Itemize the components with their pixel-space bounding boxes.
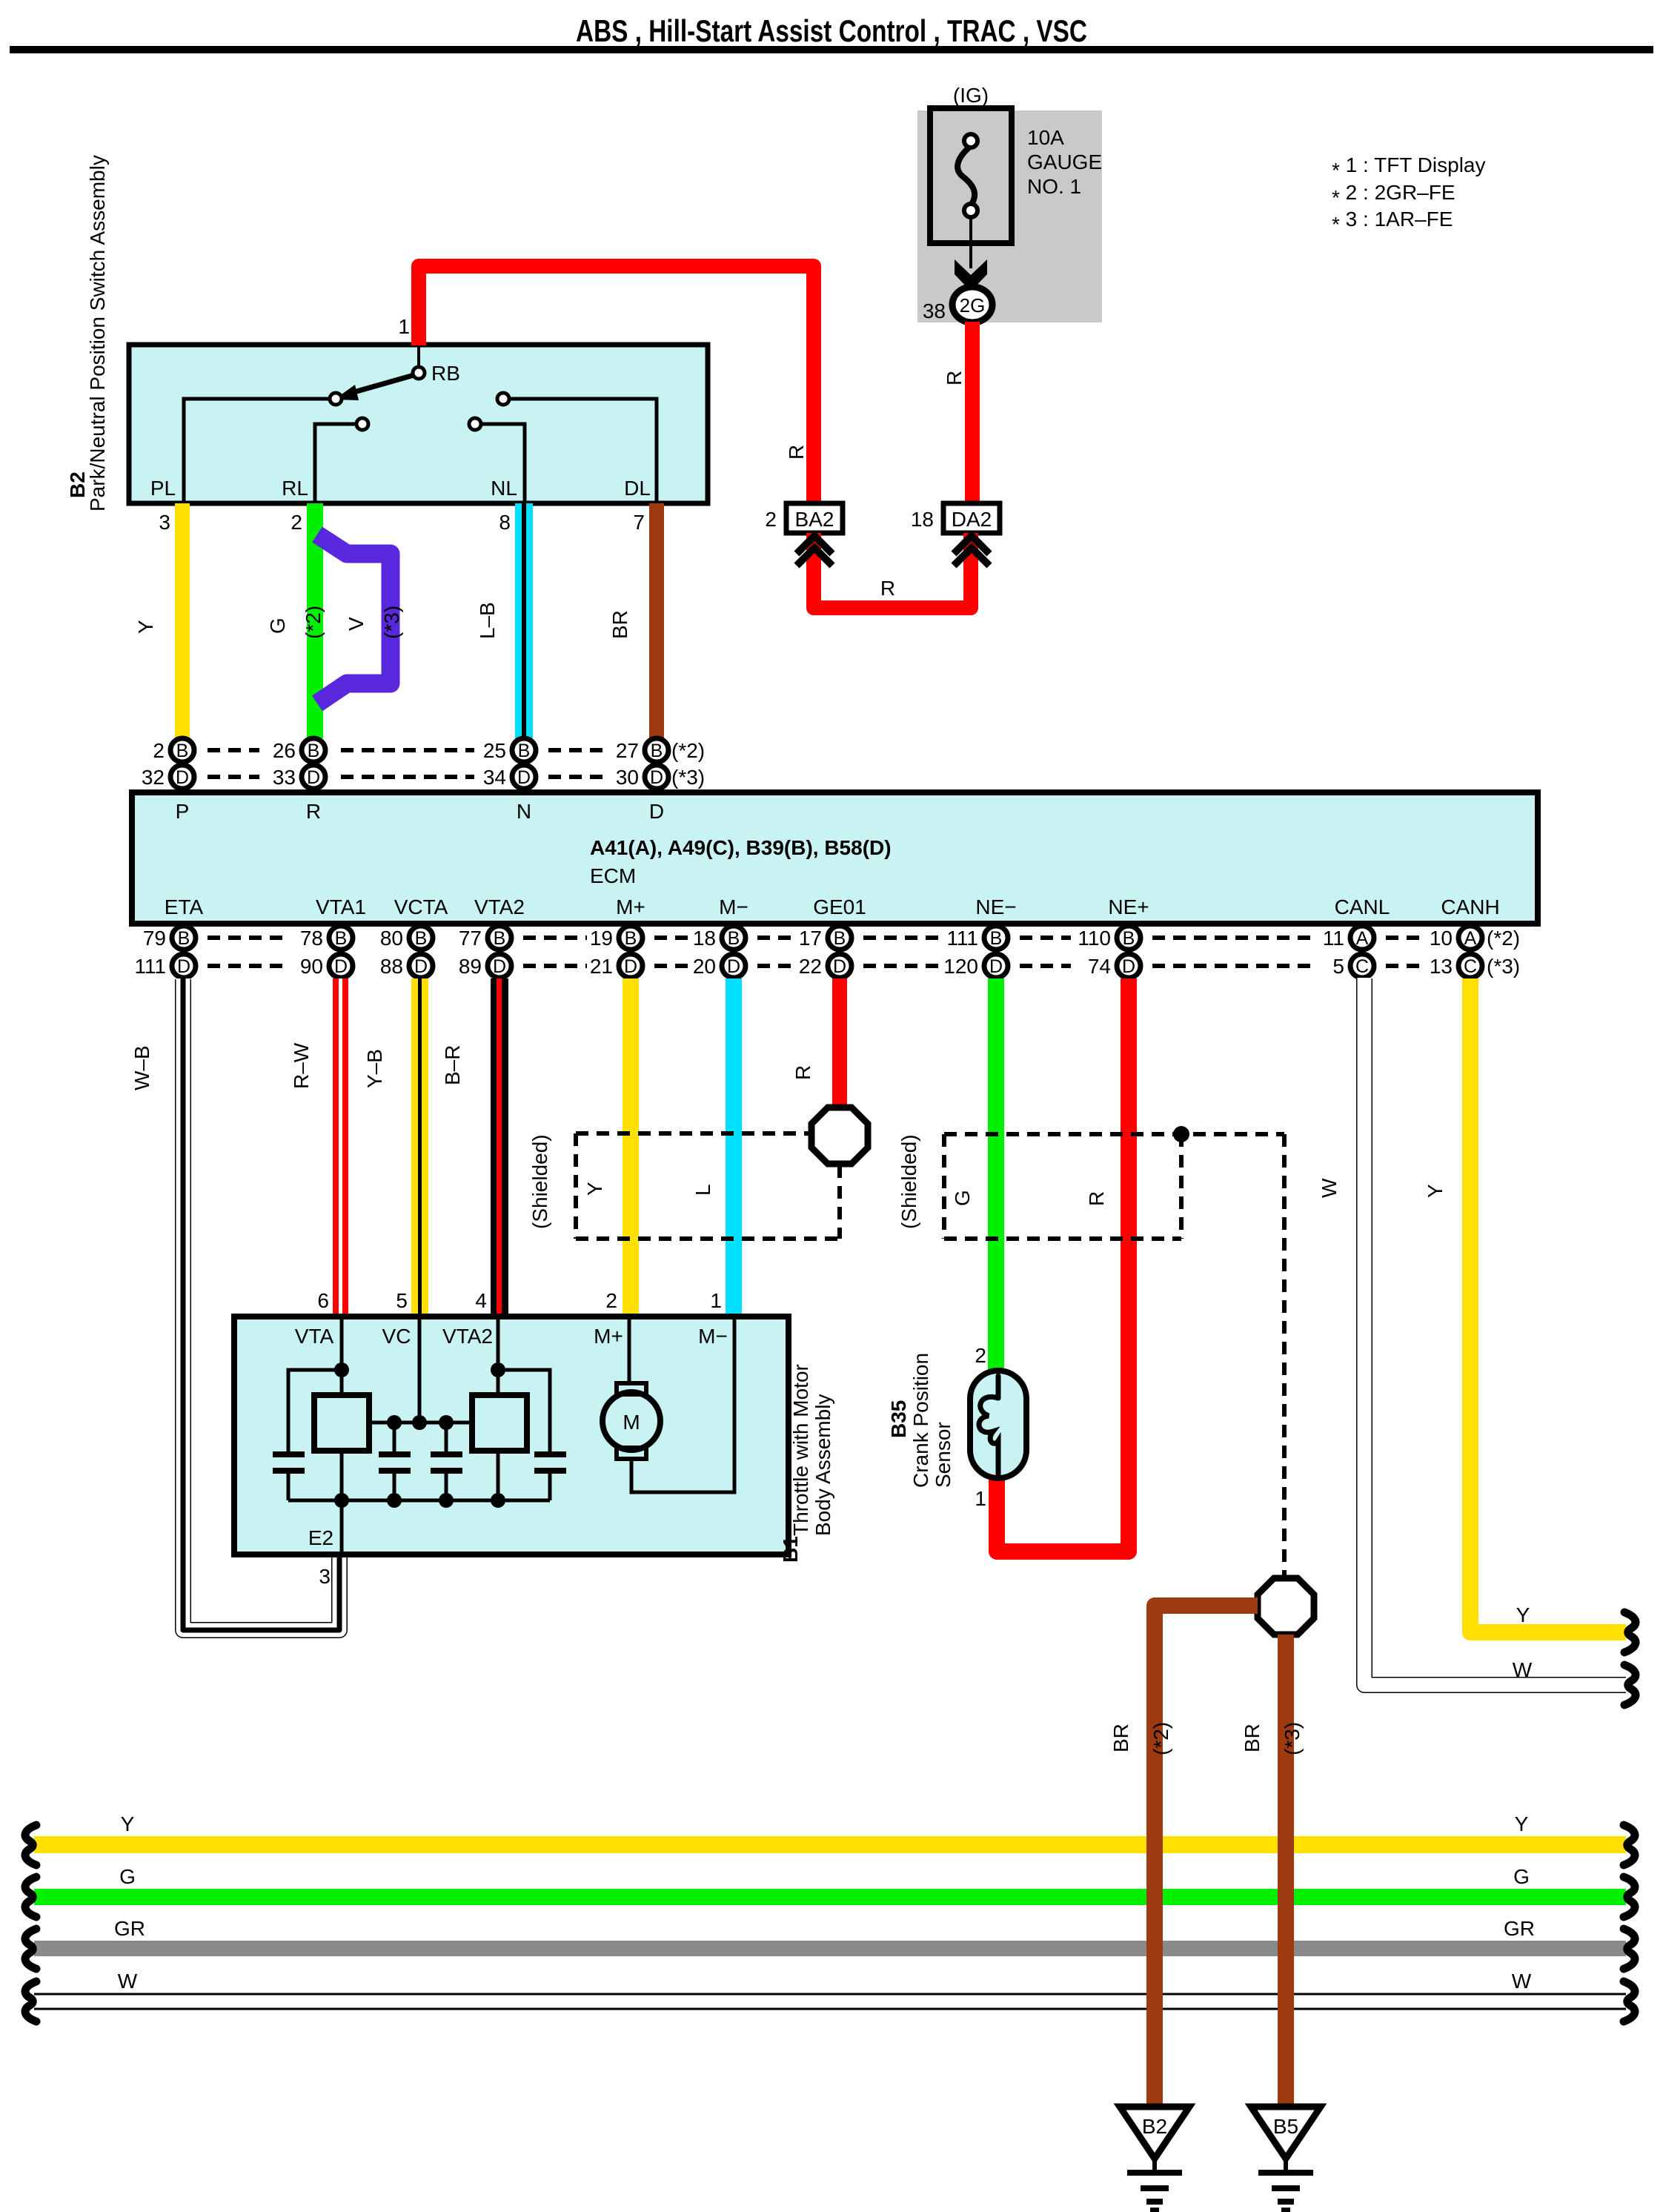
svg-text:5: 5 (1332, 955, 1344, 978)
svg-text:Y: Y (583, 1182, 606, 1196)
svg-text:B: B (176, 741, 189, 761)
brace G left (25, 1877, 36, 1917)
capacitor C2 (379, 1423, 411, 1500)
wire R : GE01 to shield octagon (832, 978, 847, 1110)
svg-text:8: 8 (499, 511, 511, 534)
svg-text:B: B (518, 741, 531, 761)
svg-text:1: 1 (710, 1289, 722, 1312)
junction dots on VC link (387, 1415, 402, 1430)
wire R : BA2 to DA2 bottom loop (814, 533, 971, 608)
capacitor C3 (431, 1423, 462, 1500)
svg-text:BR: BR (608, 610, 631, 639)
wire NL contact (475, 424, 525, 503)
svg-text:34: 34 (483, 766, 506, 789)
svg-text:DL: DL (624, 477, 651, 500)
svg-text:A: A (1464, 928, 1477, 949)
svg-text:VCTA: VCTA (394, 895, 448, 918)
svg-text:A: A (1356, 928, 1369, 949)
brace GR right (1624, 1929, 1635, 1969)
bus wire Y (34, 1836, 1626, 1853)
wire B-R : VTA2 (491, 978, 508, 1317)
svg-text:B: B (308, 741, 320, 761)
svg-text:D: D (176, 767, 189, 788)
svg-text:VTA: VTA (295, 1325, 334, 1348)
connector B/D pin D (616, 738, 668, 789)
svg-text:GR: GR (114, 1917, 145, 1940)
wire L : M- (726, 978, 742, 1317)
connector B/D pin NE+ (1078, 926, 1141, 978)
svg-text:A41(A), A49(C), B39(B), B58(D): A41(A), A49(C), B39(B), B58(D) (590, 836, 892, 859)
wire W : CANL down and right (1364, 978, 1627, 1685)
svg-text:M: M (623, 1411, 640, 1434)
svg-text:Y: Y (121, 1812, 135, 1835)
svg-text:B–R: B–R (441, 1045, 464, 1085)
wire RL contact (315, 424, 362, 503)
svg-text:Throttle with Motor: Throttle with Motor (789, 1364, 812, 1536)
svg-text:10: 10 (1430, 927, 1453, 950)
switch arm RB (334, 374, 416, 400)
svg-text:(*3): (*3) (380, 606, 403, 639)
contact RL (356, 418, 368, 430)
svg-text:W: W (1513, 1658, 1533, 1681)
connector strip dashes (341, 748, 474, 752)
svg-text:D: D (989, 956, 1003, 977)
svg-text:B: B (494, 928, 506, 949)
svg-text:CANL: CANL (1335, 895, 1390, 918)
svg-text:D: D (307, 767, 320, 788)
svg-text:(*3): (*3) (1281, 1722, 1304, 1755)
connector B/D pin NE- (943, 926, 1008, 978)
svg-text:D: D (650, 767, 663, 788)
svg-text:B: B (178, 928, 190, 949)
connector B/D pin GE01 (799, 926, 852, 978)
svg-text:D: D (624, 956, 637, 977)
svg-text:NE+: NE+ (1108, 895, 1149, 918)
svg-text:DA2: DA2 (952, 508, 992, 531)
connector strip dashes (1152, 936, 1312, 940)
svg-text:R: R (306, 800, 321, 823)
shield octagon 2 (1258, 1578, 1314, 1635)
bus wire W (34, 1994, 1626, 2009)
B2 Park/Neutral Position Switch Assembly box (129, 345, 708, 503)
svg-text:RL: RL (282, 477, 308, 500)
wire fuse to 2G with arrow (955, 217, 987, 291)
svg-text:B: B (1123, 928, 1135, 949)
svg-text:C: C (1464, 956, 1477, 977)
connector strip dashes (208, 936, 289, 940)
B35 crank position sensor (970, 1371, 1026, 1478)
svg-text:(*2): (*2) (1487, 927, 1520, 950)
link square1 to square2 (369, 1421, 472, 1425)
wire BR (*2) : octagon to ground B2 (1155, 1606, 1258, 2104)
svg-text:20: 20 (693, 955, 716, 978)
svg-text:Y: Y (1516, 1603, 1530, 1626)
svg-text:89: 89 (459, 955, 482, 978)
svg-text:25: 25 (483, 739, 506, 762)
shield junction dot (1173, 1126, 1189, 1142)
connector strip dashes (523, 936, 587, 940)
connector B/D pin M- (693, 926, 746, 978)
svg-text:B: B (335, 928, 348, 949)
ECM box (132, 792, 1538, 924)
svg-text:7: 7 (633, 511, 645, 534)
brace W left (25, 1981, 36, 2021)
svg-text:E2: E2 (308, 1526, 333, 1549)
svg-text:1: 1 (398, 315, 410, 338)
svg-text:(*3): (*3) (1487, 955, 1520, 978)
svg-text:3: 3 (319, 1565, 331, 1588)
junction dot VTA (334, 1362, 349, 1377)
svg-text:6: 6 (317, 1289, 329, 1312)
wire Y-B : VCTA (411, 978, 428, 1317)
svg-text:B: B (651, 741, 663, 761)
motor M- loop (631, 1317, 734, 1492)
connector strip dashes (863, 936, 939, 940)
VTA2 pin line (497, 1317, 500, 1395)
ground rail in throttle (288, 1499, 550, 1503)
shield box 1 dashed (576, 1133, 840, 1239)
connector BA2 (786, 503, 843, 533)
contact NL (469, 418, 481, 430)
svg-text:GR: GR (1504, 1917, 1535, 1940)
connector DA2 (943, 503, 1000, 533)
svg-text:Park/Neutral Position Switch A: Park/Neutral Position Switch Assembly (86, 155, 109, 511)
connector strip dashes (1020, 936, 1071, 940)
B1 throttle with motor body assembly box (234, 1317, 789, 1554)
fuse 10A GAUGE NO. 1 (930, 108, 1012, 243)
brace GR left (25, 1929, 36, 1969)
connector B/D pin M+ (590, 926, 643, 978)
wire R : 2G to DA2 (965, 322, 980, 503)
svg-text:111: 111 (946, 927, 978, 950)
svg-text:17: 17 (799, 927, 822, 950)
svg-text:2: 2 (153, 739, 165, 762)
svg-text:CANH: CANH (1441, 895, 1499, 918)
svg-text:33: 33 (273, 766, 296, 789)
svg-text:79: 79 (143, 927, 166, 950)
VC pin line (418, 1317, 422, 1423)
svg-text:2: 2 (291, 511, 302, 534)
svg-text:B: B (415, 928, 428, 949)
connector 2G (952, 287, 992, 322)
svg-text:ECM: ECM (590, 864, 636, 887)
capacitor C4 (534, 1454, 566, 1500)
connector B/D pin N (483, 738, 536, 789)
wire V (*3) bump (317, 534, 391, 703)
wire Y : M+ (623, 978, 639, 1317)
svg-text:88: 88 (380, 955, 403, 978)
svg-text:R–W: R–W (290, 1042, 313, 1089)
sensor element square 1 (314, 1395, 369, 1451)
svg-text:B: B (990, 928, 1003, 949)
brace W exit (1624, 1665, 1636, 1705)
svg-text:VTA1: VTA1 (316, 895, 366, 918)
dashed shield drain to octagon 2 (1282, 1134, 1287, 1576)
svg-text:D: D (414, 956, 428, 977)
svg-text:11: 11 (1323, 927, 1344, 950)
svg-text:D: D (727, 956, 740, 977)
wire Y : CANH down and right (1470, 978, 1626, 1632)
connector strip dashes (548, 748, 609, 752)
svg-text:M−: M− (698, 1325, 728, 1348)
wire BR : B2 pin7 (649, 503, 664, 738)
E2 line to box bottom (340, 1500, 344, 1554)
svg-text:R: R (880, 577, 895, 600)
brace Y exit (1624, 1612, 1636, 1652)
svg-text:18: 18 (911, 508, 934, 531)
svg-text:(Shielded): (Shielded) (528, 1134, 551, 1229)
svg-text:D: D (649, 800, 664, 823)
svg-text:D: D (1122, 956, 1135, 977)
svg-text:PL: PL (150, 477, 176, 500)
svg-text:111: 111 (134, 955, 166, 978)
svg-text:30: 30 (616, 766, 639, 789)
svg-text:Y–B: Y–B (363, 1049, 386, 1088)
svg-text:VC: VC (382, 1325, 411, 1348)
svg-text:18: 18 (693, 927, 716, 950)
connector strip dashes (654, 936, 691, 940)
bus wire GR (34, 1941, 1626, 1956)
svg-text:27: 27 (616, 739, 639, 762)
contact RB (413, 367, 425, 379)
svg-text:M+: M+ (616, 895, 645, 918)
svg-text:(*3): (*3) (671, 766, 705, 789)
shield box 2 dashed (944, 1134, 1284, 1239)
svg-text:VTA2: VTA2 (474, 895, 525, 918)
connector A/C pin CANH (1430, 926, 1482, 978)
wire Y : B2 pin3 (175, 503, 190, 738)
connector strip dashes (208, 748, 259, 752)
brace W right (1624, 1981, 1635, 2021)
svg-text:B1: B1 (779, 1536, 802, 1563)
svg-text:G: G (951, 1190, 974, 1206)
svg-text:BR: BR (1241, 1723, 1264, 1752)
svg-text:Y: Y (1515, 1812, 1529, 1835)
svg-text:90: 90 (300, 955, 323, 978)
svg-text:4: 4 (475, 1289, 487, 1312)
svg-text:W–B: W–B (130, 1045, 153, 1090)
svg-text:74: 74 (1088, 955, 1111, 978)
connector strip dashes (1386, 936, 1419, 940)
bus wire G (34, 1889, 1626, 1905)
svg-text:VTA2: VTA2 (442, 1325, 493, 1348)
svg-text:W: W (118, 1970, 138, 1993)
svg-text:110: 110 (1078, 927, 1111, 950)
wire R : B2 pin1 to BA2 (419, 266, 814, 504)
svg-text:R: R (791, 1065, 814, 1080)
svg-text:26: 26 (273, 739, 296, 762)
svg-text:R: R (943, 371, 966, 385)
svg-text:B: B (728, 928, 740, 949)
motor M+ lead (628, 1317, 631, 1385)
connector B/D pin R (273, 738, 325, 789)
connector B/D pin VTA2 (459, 926, 511, 978)
svg-text:B: B (834, 928, 846, 949)
wire from pin1 to RB contact (417, 345, 420, 368)
svg-text:5: 5 (396, 1289, 408, 1312)
connector B/D pin P (142, 738, 194, 789)
chevrons under BA2 (797, 536, 832, 566)
svg-text:38: 38 (923, 299, 946, 322)
svg-text:L–B: L–B (476, 602, 499, 639)
VTA2 branch to cap4 (498, 1370, 550, 1454)
svg-text:2: 2 (975, 1344, 986, 1367)
chevrons under DA2 (954, 536, 989, 566)
svg-text:L: L (691, 1184, 714, 1196)
svg-text:2G: 2G (960, 294, 986, 317)
wire G : NE- to crank sensor (988, 978, 1004, 1371)
svg-text:P: P (176, 800, 190, 823)
svg-text:D: D (334, 956, 348, 977)
sensor element square 2 (472, 1395, 527, 1451)
fuse panel (junction block, grey) (917, 110, 1102, 322)
wire G : B2 pin2 (307, 503, 323, 738)
svg-text:Crank Position: Crank Position (909, 1353, 932, 1488)
svg-text:G: G (119, 1865, 136, 1888)
svg-text:NL: NL (491, 477, 517, 500)
wire W-B : ETA to E2 (183, 978, 339, 1630)
svg-text:Y: Y (134, 620, 157, 634)
contact PL (330, 393, 342, 405)
svg-text:R: R (785, 445, 808, 460)
svg-text:80: 80 (380, 927, 403, 950)
junction dot VTA2 (491, 1362, 505, 1377)
connector B/D pin ETA (134, 926, 196, 978)
svg-text:M−: M− (719, 895, 748, 918)
svg-text:D: D (517, 767, 531, 788)
rail junction dots (334, 1493, 349, 1508)
svg-text:21: 21 (590, 955, 613, 978)
svg-text:BR: BR (1109, 1723, 1132, 1752)
connector A/C pin CANL (1323, 926, 1374, 978)
svg-text:V: V (345, 617, 368, 631)
svg-text:77: 77 (459, 927, 482, 950)
svg-text:N: N (517, 800, 531, 823)
connector B/D pin VCTA (380, 926, 433, 978)
svg-text:BA2: BA2 (795, 508, 834, 531)
wire R-W : VTA1 (333, 978, 348, 1317)
svg-text:(IG): (IG) (953, 84, 989, 107)
svg-text:2: 2 (605, 1289, 617, 1312)
VTA pin line (340, 1317, 344, 1395)
svg-text:(*2): (*2) (671, 739, 705, 762)
svg-text:1: 1 (975, 1487, 986, 1510)
brace Y left (25, 1825, 36, 1865)
svg-text:120: 120 (943, 955, 978, 978)
wire BR (*3) : octagon to ground B5 (1278, 1635, 1294, 2104)
svg-text:10A: 10A (1027, 126, 1064, 149)
svg-text:2: 2 (765, 508, 777, 531)
svg-text:(*2): (*2) (1149, 1722, 1172, 1755)
svg-text:D: D (493, 956, 506, 977)
wire PL contact (184, 399, 336, 503)
VTA2 line below square (497, 1451, 500, 1500)
svg-text:D: D (177, 956, 190, 977)
svg-text:GE01: GE01 (813, 895, 866, 918)
svg-text:78: 78 (300, 927, 323, 950)
svg-text:B: B (625, 928, 637, 949)
contact DL (497, 393, 509, 405)
VTA branch to cap1 (288, 1370, 342, 1454)
svg-text:B2: B2 (1142, 2115, 1167, 2138)
wire R : NE+ to crank sensor (997, 978, 1129, 1552)
svg-text:D: D (833, 956, 846, 977)
motor M (603, 1383, 660, 1459)
svg-text:NO. 1: NO. 1 (1027, 175, 1081, 198)
svg-text:C: C (1355, 956, 1369, 977)
connector B/D pin VTA1 (300, 926, 353, 978)
shield octagon 1 (811, 1107, 868, 1164)
svg-text:GAUGE: GAUGE (1027, 150, 1102, 173)
svg-text:M+: M+ (594, 1325, 623, 1348)
svg-text:3: 3 (159, 511, 170, 534)
svg-text:RB: RB (431, 362, 460, 385)
svg-text:B35: B35 (887, 1400, 910, 1438)
svg-text:G: G (1513, 1865, 1530, 1888)
capacitor C1 (273, 1454, 305, 1500)
svg-text:(*2): (*2) (302, 606, 325, 639)
svg-text:Y: Y (1424, 1184, 1447, 1198)
brace G right (1624, 1877, 1635, 1917)
brace Y right (1624, 1825, 1635, 1865)
svg-text:B5: B5 (1273, 2115, 1298, 2138)
connector strip dashes (757, 936, 796, 940)
ground B2 (1120, 2107, 1189, 2210)
svg-text:Sensor: Sensor (932, 1422, 955, 1488)
svg-text:32: 32 (142, 766, 165, 789)
wire L-B : B2 pin8 (515, 503, 533, 738)
svg-text:R: R (1085, 1191, 1108, 1206)
svg-text:W: W (1318, 1178, 1341, 1198)
VTA line below square (340, 1451, 344, 1500)
ground B5 (1251, 2107, 1321, 2210)
svg-text:19: 19 (590, 927, 613, 950)
wire DL contact (503, 399, 657, 503)
title rule (10, 46, 1653, 53)
svg-text:NE−: NE− (975, 895, 1016, 918)
svg-text:13: 13 (1430, 955, 1453, 978)
svg-text:22: 22 (799, 955, 822, 978)
svg-text:Body Assembly: Body Assembly (811, 1394, 834, 1536)
svg-text:(Shielded): (Shielded) (897, 1134, 920, 1229)
svg-text:W: W (1512, 1970, 1532, 1993)
svg-text:ABS , Hill-Start Assist Contro: ABS , Hill-Start Assist Control , TRAC ,… (576, 13, 1087, 48)
svg-text:ETA: ETA (165, 895, 204, 918)
svg-text:G: G (266, 617, 289, 634)
